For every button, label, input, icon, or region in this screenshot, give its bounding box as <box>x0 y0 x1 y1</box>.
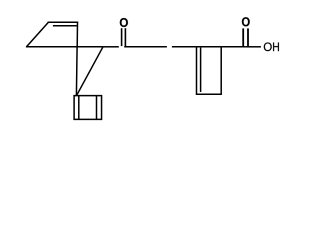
bond C11-O(H) (chain to hydroxyl) <box>246 46 261 48</box>
bond C8-C9 (chain segment to ring C) <box>172 46 197 48</box>
bond C1-C2 (cyclobutene ring A left diagonal edge) <box>27 22 49 46</box>
cyclobutadiene ring B outer square <box>74 96 101 120</box>
ring C left double-bond inner line <box>200 48 202 92</box>
bond C5-C7 (diagonal down to ring B) <box>76 47 103 96</box>
bond C5-C6 (chain toward ketone, shortened) <box>103 46 119 48</box>
ketone C6=O double bond right line <box>124 28 126 46</box>
ring B left double-bond inner line <box>78 96 80 119</box>
cyclobutene ring C outer edges (left, bottom, right) <box>197 47 222 95</box>
bond C6-C8 (chain segment) <box>124 46 167 48</box>
bond C1-C4 (ring A bottom edge, on chain) <box>26 46 77 48</box>
bond C10-C11 (chain to carboxyl carbon) <box>221 46 245 48</box>
bond C3-C4 (ring A right vertical edge) <box>76 22 78 47</box>
bond C9=C10 (ring C top edge on chain) <box>197 46 222 48</box>
ketone C6=O double bond left line <box>121 28 123 46</box>
carboxyl C11=O double bond right line <box>247 28 249 46</box>
bond C4-C5 (chain horizontal) <box>77 46 103 48</box>
atom label O (carboxyl double-bond oxygen) <box>242 17 250 26</box>
carboxyl C11=O double bond left line <box>242 28 244 46</box>
bond C2=C3 inner double-bond line <box>53 25 77 27</box>
ring B right double-bond inner line <box>96 96 98 119</box>
bond C4-C7 (vertical down to cyclobutadiene ring B) <box>75 47 78 96</box>
bond C2=C3 main line (ring A top edge) <box>48 21 79 23</box>
atom label H of OH (hydroxyl hydrogen) <box>273 43 279 52</box>
atom label O of OH (hydroxyl oxygen) <box>264 43 272 52</box>
atom label O (ketone oxygen) <box>120 18 128 27</box>
